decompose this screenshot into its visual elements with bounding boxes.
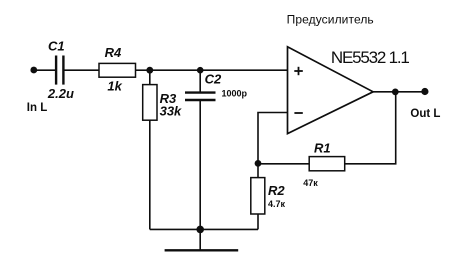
node B junction	[197, 67, 204, 74]
wire R4 to node A	[136, 69, 150, 71]
svg-text:47к: 47к	[303, 178, 318, 188]
wire feedback from output down to R1	[345, 92, 396, 164]
svg-text:NE5532 1.1: NE5532 1.1	[331, 48, 410, 67]
svg-text:R1: R1	[314, 140, 331, 155]
node C output junction	[392, 89, 399, 96]
wire R3 to ground rail	[149, 120, 151, 229]
node In L terminal	[30, 67, 37, 74]
op-amp plus input symbol	[294, 67, 303, 75]
svg-text:1k: 1k	[107, 79, 122, 94]
svg-text:In L: In L	[27, 102, 47, 114]
wire input to C1	[34, 69, 55, 71]
wire ground stub	[199, 229, 201, 249]
svg-text:2.2u: 2.2u	[47, 86, 74, 101]
svg-text:33k: 33k	[160, 103, 182, 118]
resistor R2	[251, 178, 265, 214]
wire R1 to node D	[258, 163, 309, 165]
node A junction	[146, 67, 153, 74]
wire node B down to C2	[199, 70, 201, 91]
wire ground rail	[150, 228, 258, 230]
svg-text:R4: R4	[105, 45, 122, 60]
resistor R4	[99, 63, 136, 77]
svg-text:C2: C2	[205, 71, 222, 86]
op-amp minus input symbol	[294, 112, 302, 114]
svg-text:Предусилитель: Предусилитель	[287, 12, 374, 26]
wire C2 to ground rail	[199, 101, 201, 229]
svg-text:C1: C1	[48, 39, 65, 54]
capacitor C2	[185, 93, 216, 100]
wire node A to node B	[150, 69, 200, 71]
wire node D to R2	[257, 163, 259, 177]
resistor R1	[309, 157, 345, 171]
svg-text:4.7к: 4.7к	[268, 199, 286, 209]
ground	[165, 249, 239, 251]
node D junction	[255, 160, 262, 167]
svg-text:Out L: Out L	[410, 108, 440, 120]
node Out L terminal	[421, 88, 428, 95]
op-amp U1 triangle	[288, 47, 374, 134]
wire C1 to R4	[64, 69, 99, 71]
svg-text:R2: R2	[268, 183, 285, 198]
svg-text:1000p: 1000p	[222, 88, 248, 98]
wire node B to op-amp noninverting input	[200, 69, 287, 71]
wire R2 to ground rail	[257, 214, 259, 229]
capacitor C1	[56, 56, 63, 85]
node E ground junction	[196, 226, 204, 234]
resistor R3	[143, 85, 157, 121]
wire node A down to R3	[149, 70, 151, 84]
wire inverting input	[258, 113, 288, 164]
wire op-amp output	[373, 91, 425, 93]
